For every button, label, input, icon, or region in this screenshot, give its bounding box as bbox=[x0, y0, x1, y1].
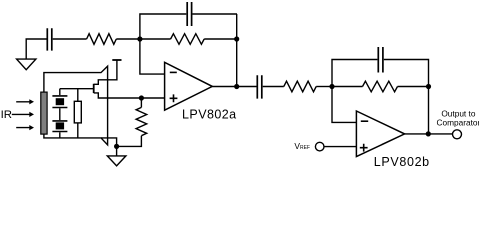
svg-text:Comparator: Comparator bbox=[436, 118, 479, 128]
svg-text:IR: IR bbox=[1, 109, 12, 121]
svg-text:VREF: VREF bbox=[294, 141, 310, 151]
svg-text:LPV802b: LPV802b bbox=[374, 155, 430, 169]
svg-text:LPV802a: LPV802a bbox=[182, 107, 237, 121]
